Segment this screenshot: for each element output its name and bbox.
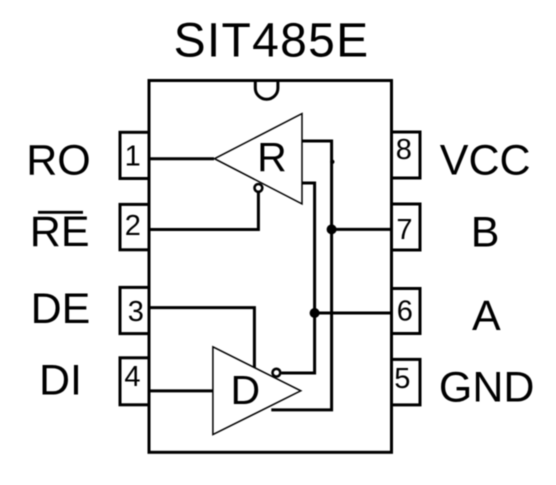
svg-text:D: D	[230, 367, 260, 413]
svg-text:1: 1	[125, 140, 141, 172]
svg-text:RE: RE	[30, 208, 90, 256]
svg-text:8: 8	[396, 134, 412, 166]
svg-text:3: 3	[128, 296, 144, 328]
svg-text:R: R	[257, 134, 287, 180]
svg-text:2: 2	[125, 210, 141, 242]
svg-text:GND: GND	[439, 364, 535, 412]
svg-text:SIT485E: SIT485E	[174, 15, 370, 68]
svg-text:RO: RO	[26, 137, 91, 185]
svg-text:VCC: VCC	[440, 137, 531, 185]
svg-text:A: A	[472, 292, 501, 340]
svg-text:4: 4	[124, 361, 140, 393]
svg-text:7: 7	[396, 214, 412, 246]
svg-text:6: 6	[397, 296, 413, 328]
svg-text:B: B	[471, 208, 500, 256]
svg-text:DI: DI	[39, 357, 82, 405]
svg-text:5: 5	[394, 363, 410, 395]
svg-text:DE: DE	[31, 285, 91, 333]
